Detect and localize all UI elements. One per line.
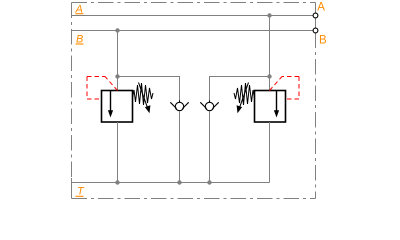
port B circle xyxy=(313,28,318,33)
enclosure boundary: left edge (dash-dot) xyxy=(71,3,73,199)
wire: right branch to check valve CV2 xyxy=(210,77,270,101)
junction dot T rail at CV1 outlet xyxy=(177,180,181,184)
wire: A rail drop to relief valve RV2 inlet xyxy=(269,16,271,91)
junction dot right branch (269.5,76.5) xyxy=(267,74,271,78)
wire: CV2 outlet down to T rail xyxy=(209,111,211,182)
wire: CV1 outlet down to T rail xyxy=(179,111,181,182)
check valve CV2 seat xyxy=(200,102,218,108)
wire: rail A (y=15.5) xyxy=(72,15,314,17)
relief valve RV1 body xyxy=(102,91,133,123)
wire: RV2 outlet down to T rail xyxy=(269,122,271,183)
relief valve RV2 adjustment arrow xyxy=(237,83,249,114)
relief valve RV2 pilot line (red dashed) xyxy=(270,77,300,100)
junction dot T rail at CV2 outlet xyxy=(207,180,211,184)
relief valve RV2 spring xyxy=(234,83,255,105)
port A label xyxy=(317,2,325,14)
wire: T rail (y=182.5) xyxy=(72,182,270,184)
relief valve RV2 body xyxy=(255,91,286,123)
node label A (left, italic underlined) xyxy=(75,3,84,15)
relief valve RV2 internal flow arrow xyxy=(274,91,279,118)
relief valve RV1 internal flow arrow xyxy=(108,91,113,118)
wire: B rail drop to relief valve RV1 inlet xyxy=(117,31,119,91)
wire: left branch to check valve CV1 xyxy=(118,77,180,101)
junction dot on rail A at x=269.5 xyxy=(267,13,271,17)
junction dot on rail B at x=117.5 xyxy=(115,28,119,32)
relief valve RV1 pilot line (red dashed) xyxy=(87,77,118,100)
check valve CV2 ball xyxy=(205,100,213,110)
wire: rail B (y=30.5) xyxy=(72,30,314,32)
check valve CV1 ball xyxy=(175,100,183,110)
svg-text:A: A xyxy=(317,2,325,14)
enclosure boundary: bottom edge (dash-dot) xyxy=(72,198,316,200)
relief valve RV1 spring xyxy=(133,83,154,105)
relief valve RV1 adjustment arrow xyxy=(139,83,151,114)
port B label xyxy=(319,35,327,47)
node label T (left bottom, italic underlined) xyxy=(76,186,86,198)
wire: RV1 outlet down to T rail xyxy=(117,122,119,183)
enclosure boundary: top edge (dash-dot) xyxy=(72,2,316,4)
svg-text:B: B xyxy=(319,35,327,47)
junction dot T rail at RV1 outlet xyxy=(115,180,119,184)
node label B (left, italic underlined) xyxy=(76,33,84,45)
check valve CV1 seat xyxy=(170,102,188,108)
enclosure boundary: right edge (dash-dot, solid through ports) xyxy=(315,3,317,199)
port A circle xyxy=(313,13,318,18)
junction dot left branch (117.5,76.5) xyxy=(115,74,119,78)
